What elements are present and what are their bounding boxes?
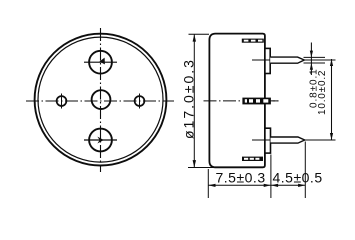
middle crimp bar bbox=[242, 98, 271, 105]
svg-text:10.0±0.2: 10.0±0.2 bbox=[317, 70, 328, 115]
dim phi17 bottom extension line bbox=[188, 167, 214, 169]
left small hole bbox=[57, 96, 67, 106]
center hole bbox=[92, 90, 111, 109]
right small hole tick bbox=[139, 94, 141, 109]
side view body bbox=[209, 34, 265, 168]
middle centerline stub bbox=[273, 100, 279, 102]
dim 10.0 dimension line bbox=[330, 59, 333, 140]
right small hole bbox=[135, 96, 145, 106]
top hole bbox=[89, 51, 112, 74]
bottom seal bar bbox=[242, 157, 263, 161]
top pin bbox=[270, 57, 304, 63]
dim 0.8 dimension line bbox=[310, 43, 313, 76]
top seal bar bbox=[242, 39, 264, 43]
front view horizontal centerline bbox=[26, 100, 174, 102]
dim 0.8 upper extension line bbox=[304, 56, 326, 58]
svg-text:7.5±0.3: 7.5±0.3 bbox=[216, 170, 266, 186]
top pin centerline bbox=[252, 59, 336, 61]
svg-text:4.5±0.5: 4.5±0.5 bbox=[273, 170, 323, 186]
top hole crosshair bbox=[84, 61, 117, 63]
front view inner circle bbox=[38, 37, 163, 162]
bottom pin boss bbox=[265, 128, 271, 153]
dim 0.8 lower extension line bbox=[304, 62, 326, 64]
dim 7.5 left extension line bbox=[207, 169, 209, 198]
bottom hole bbox=[89, 129, 112, 152]
dim phi17 top extension line bbox=[189, 33, 210, 35]
svg-text:ø17.0±0.3: ø17.0±0.3 bbox=[181, 58, 197, 139]
bottom hole crosshair bbox=[84, 139, 117, 141]
top pin boss bbox=[265, 48, 270, 73]
left small hole tick bbox=[61, 94, 63, 109]
bottom dimension line bbox=[208, 184, 305, 187]
dim 4.5 right extension line bbox=[304, 142, 306, 199]
front view outer circle bbox=[35, 34, 167, 166]
dim phi17 dimension line bbox=[193, 34, 196, 167]
bottom pin centerline bbox=[252, 139, 336, 141]
side view horizontal centerline bbox=[204, 100, 279, 102]
top hole mark bbox=[99, 58, 105, 65]
bottom pin bbox=[271, 137, 305, 143]
front view vertical centerline bbox=[100, 28, 102, 172]
bottom hole mark bbox=[97, 137, 103, 144]
dim 4.5 middle extension line bbox=[270, 155, 272, 199]
